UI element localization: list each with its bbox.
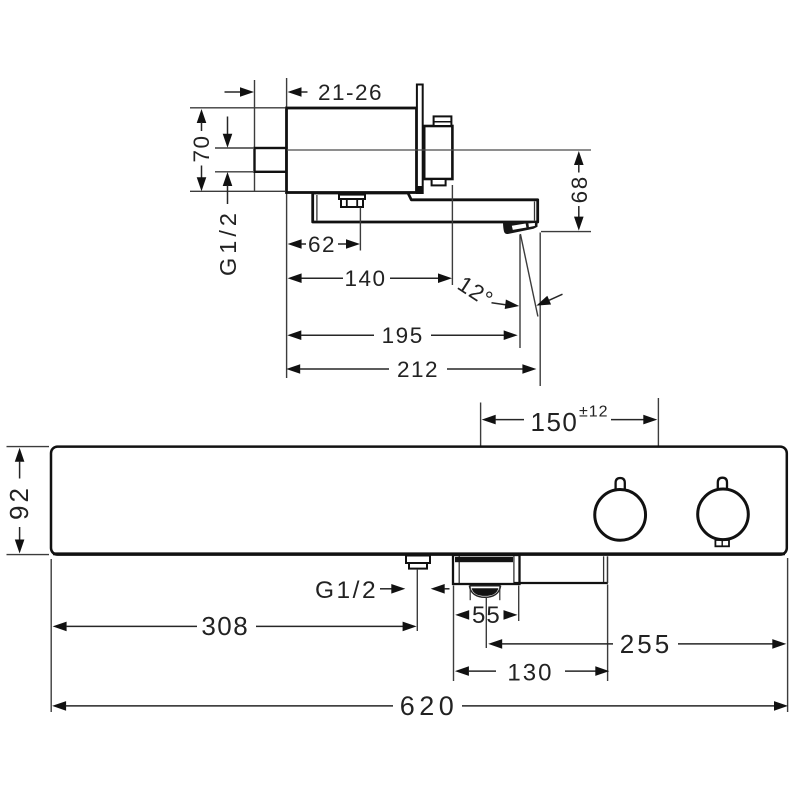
92 bottom extension bbox=[7, 554, 50, 556]
hose nipple flange bbox=[406, 556, 430, 564]
dome side ticks bbox=[469, 586, 471, 600]
svg-text:G1/2: G1/2 bbox=[315, 577, 378, 604]
right knob pin bbox=[718, 478, 727, 490]
aerator tip bbox=[503, 222, 538, 235]
valve body bbox=[287, 108, 417, 193]
union nut flange bbox=[339, 195, 365, 199]
stream vertical reference line bbox=[519, 235, 521, 349]
body top extension line bbox=[190, 107, 285, 109]
extension line for 212 bbox=[539, 233, 541, 387]
extension line 68 bottom bbox=[541, 231, 591, 233]
dimension 92 bbox=[4, 448, 34, 554]
dimension 255 bbox=[488, 629, 786, 659]
leader line from union nut bbox=[359, 208, 361, 251]
outlet block inner edges bbox=[458, 556, 460, 583]
G1/2 label (bottom) bbox=[315, 577, 450, 604]
dimension 212 bbox=[286, 357, 536, 382]
extension line for 140 bbox=[451, 185, 453, 285]
92 top extension bbox=[7, 446, 50, 448]
dimension 55 bbox=[455, 602, 517, 629]
left knob bbox=[595, 490, 646, 541]
spout right inner line bbox=[534, 202, 536, 221]
stream 12 degree line bbox=[520, 234, 538, 317]
left extension line bbox=[286, 78, 288, 378]
right knob bottom tab bbox=[715, 540, 729, 546]
svg-text:92: 92 bbox=[4, 485, 34, 520]
left extension line (bottom view) bbox=[50, 559, 52, 712]
dimension 62 bbox=[288, 232, 360, 257]
dimension 620 bbox=[52, 691, 788, 721]
svg-text:308: 308 bbox=[201, 611, 249, 641]
dimension 140 bbox=[288, 266, 452, 291]
svg-text:195: 195 bbox=[382, 323, 424, 348]
centerline bbox=[287, 149, 591, 151]
svg-text:21-26: 21-26 bbox=[318, 80, 383, 105]
svg-text:212: 212 bbox=[397, 357, 439, 382]
dimension 195 bbox=[287, 323, 517, 348]
recess edge lines bbox=[603, 556, 605, 582]
outlet dome bbox=[469, 586, 500, 598]
wall plate bbox=[417, 85, 423, 194]
shelf bar bbox=[51, 447, 787, 555]
svg-text:255: 255 bbox=[620, 629, 672, 659]
svg-text:620: 620 bbox=[400, 691, 459, 721]
left knob pin bbox=[616, 478, 625, 490]
spout bbox=[313, 193, 538, 222]
hose nipple body bbox=[409, 563, 427, 569]
block bottom tab bbox=[432, 179, 446, 185]
svg-text:140: 140 bbox=[344, 266, 386, 291]
130 right extension bbox=[607, 585, 609, 682]
wall plate foot bbox=[417, 187, 423, 194]
svg-text:±12: ±12 bbox=[579, 404, 609, 421]
svg-text:62: 62 bbox=[308, 232, 336, 257]
concealed valve block bbox=[424, 126, 452, 179]
150 left extension bbox=[480, 403, 482, 447]
svg-text:150: 150 bbox=[531, 407, 579, 437]
G1/2 label (top) bbox=[215, 117, 241, 276]
55 right extension bbox=[518, 586, 520, 622]
nipple top edge extension bbox=[215, 147, 253, 149]
55/130 left extension bbox=[453, 586, 455, 682]
wall reference line bbox=[254, 80, 256, 192]
dimension 308 bbox=[53, 611, 417, 641]
bar bottom accent bbox=[53, 552, 785, 555]
leader from outlet dome bbox=[485, 598, 487, 649]
outlet block bbox=[453, 555, 520, 584]
svg-text:G1/2: G1/2 bbox=[215, 209, 241, 276]
right knob bbox=[698, 489, 749, 540]
svg-text:55: 55 bbox=[472, 602, 501, 629]
svg-text:70: 70 bbox=[189, 134, 214, 162]
dimension 68 bbox=[567, 151, 592, 231]
body bottom extension line bbox=[190, 190, 285, 192]
outlet block slot bbox=[455, 557, 513, 562]
union nut body bbox=[341, 199, 363, 207]
150 right extension bbox=[657, 398, 659, 446]
dimension 150 +/-12 bbox=[482, 404, 658, 438]
dimension 21-26 bbox=[225, 80, 384, 105]
svg-text:68: 68 bbox=[567, 175, 592, 203]
dimension 130 bbox=[455, 659, 609, 686]
dimension 70 bbox=[189, 109, 214, 191]
right extension line (bottom view) bbox=[787, 558, 789, 712]
block top tab bbox=[434, 116, 452, 126]
spout left inner line bbox=[316, 195, 318, 221]
svg-text:130: 130 bbox=[507, 659, 553, 686]
nipple bottom edge extension bbox=[215, 171, 253, 173]
recess bottom line bbox=[514, 582, 608, 584]
G1/2 nipple bbox=[255, 148, 287, 172]
angle 12 degrees bbox=[453, 271, 562, 312]
union nut facets bbox=[346, 199, 348, 207]
leader from hose nipple bbox=[416, 569, 418, 631]
outlet dome rim bbox=[469, 585, 500, 587]
